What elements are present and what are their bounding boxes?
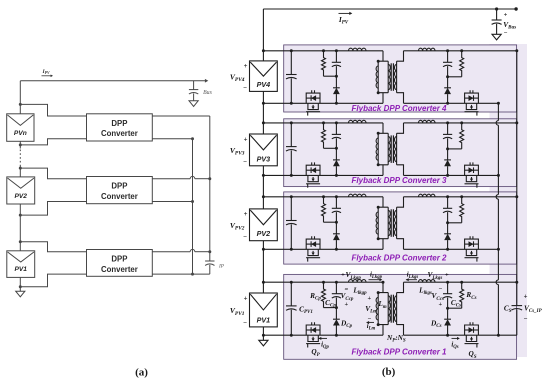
wire: DPP n upper output to IP+ rail (a) <box>152 115 210 117</box>
wire: converter 2 secondary top rail (b) <box>404 196 419 198</box>
node: converter 3 secondary return on IP- rail (b) <box>497 174 500 177</box>
svg-text:IPV: IPV <box>338 15 349 26</box>
PV panel PV4 (b) <box>250 61 278 92</box>
svg-text:−: − <box>243 320 247 327</box>
resistor R_Cp (converter 1) (b) <box>322 282 326 307</box>
svg-text:PV2: PV2 <box>257 229 271 238</box>
diode D_Cp (converter 3) (b) <box>335 148 337 160</box>
svg-text:DPP: DPP <box>111 255 127 264</box>
wire: dotted string continuation (a) <box>19 150 21 167</box>
svg-text:PV4: PV4 <box>257 80 271 89</box>
PV panel PV2 (b) <box>250 209 278 241</box>
wire: secondary stubs (converter 1) (b) <box>397 282 404 292</box>
wire: PV1 top to DPP converter 1 input (a) <box>20 242 86 252</box>
svg-text:VPV1: VPV1 <box>230 306 245 317</box>
node: DPP 2 lower on lower bus (a) <box>191 200 194 203</box>
wire: left string rail (a) upper <box>19 81 21 114</box>
svg-text:+: + <box>368 295 372 302</box>
svg-text:IP: IP <box>218 263 225 269</box>
node: converter 4 + tap on string rail (b) <box>262 49 265 52</box>
MOSFET Q_P (converter 3) (b) <box>306 165 320 175</box>
capacitor C_Cs (converter 2) (b) <box>447 197 449 209</box>
svg-text:Flyback DPP Converter 3: Flyback DPP Converter 3 <box>352 176 448 185</box>
capacitor C_Cs (converter 1) (b) <box>447 282 449 294</box>
wire: transformer primary feed (converter 2) (b) <box>382 197 384 207</box>
svg-text:−: − <box>344 286 348 293</box>
node: PV1 top (a) <box>19 240 22 243</box>
node: PVn top (a) <box>19 103 22 106</box>
svg-text:(a): (a) <box>135 366 148 378</box>
svg-text:DPP: DPP <box>111 182 127 191</box>
inductor L_lkgp (converter 2) (b) <box>349 196 367 198</box>
PV panel PV1 (b) <box>250 293 278 327</box>
wire: converter 4 secondary bottom rail (b) <box>404 102 499 104</box>
wire: transformer primary feed (converter 4) (b) <box>382 51 384 61</box>
svg-text:−: − <box>504 30 508 37</box>
wire: clamp RC join bar secondary (converter 1) (b) <box>448 307 462 309</box>
resistor R_Cs (converter 2) (b) <box>460 197 464 223</box>
wire: converter 1 secondary bottom rail (b) <box>404 334 499 336</box>
svg-text:+: + <box>244 136 248 143</box>
label i_Qs with arrow (b) <box>452 337 458 339</box>
wire: lower bus vertical (a) <box>192 139 194 274</box>
svg-text:Converter: Converter <box>101 265 138 274</box>
wire: converter 3 primary bottom rail (b) <box>263 174 383 176</box>
svg-text:VBus: VBus <box>503 20 516 31</box>
svg-text:+: + <box>244 211 248 218</box>
label i_Lm with arrow (b) <box>367 321 370 324</box>
wire: converter 1 primary top rail (b) <box>263 281 348 283</box>
inductor L_lkgp (converter 3) (b) <box>349 122 367 124</box>
capacitor C_Bus / V_Bus (b) <box>496 9 498 20</box>
resistor R_Cs (converter 4) (b) <box>460 51 464 77</box>
svg-text:−: − <box>368 315 372 322</box>
inductor L_m magnetizing (converter 2) (b) <box>377 207 379 239</box>
wire: clamp RC join bar primary (converter 2) (b) <box>324 221 337 223</box>
transformer core (converter 3) (b) <box>390 135 392 163</box>
wire: converter 2 primary bottom rail (b) <box>263 248 383 250</box>
node: converter 1 secondary return on IP- rail (b) <box>497 334 500 337</box>
capacitor C_Cp (converter 1) (b) <box>335 282 337 294</box>
svg-text:Converter: Converter <box>101 129 138 138</box>
svg-text:−: − <box>243 159 247 166</box>
svg-text:+: + <box>438 301 442 308</box>
diode D_Cs (converter 3) (b) <box>447 149 449 160</box>
node: converter 4 secondary return on IP- rail (b) <box>497 102 500 105</box>
node: converter 2 - tap on string rail (b) <box>262 248 265 251</box>
lavender strip: shared IP port region (b) <box>490 44 528 357</box>
diode D_Cp (converter 4) (b) <box>335 76 337 88</box>
wire: secondary stubs (converter 4) (b) <box>397 51 404 61</box>
node: converter 3 + tap on string rail (b) <box>262 121 265 124</box>
wire: PV2 top to DPP converter 2 input (a) <box>20 168 86 179</box>
svg-text:Converter: Converter <box>101 192 138 201</box>
wire: clamp RC join bar secondary (converter 4) (b) <box>448 76 462 78</box>
MOSFET Q_P (converter 4) (b) <box>306 93 320 103</box>
ground below C_Bus (a) <box>189 101 198 107</box>
wire: DPP 1 upper output to IP+ rail with hop (a) <box>152 251 190 253</box>
resistor R_Cp (converter 3) (b) <box>322 123 326 148</box>
svg-text:Bus: Bus <box>203 90 212 96</box>
wire: clamp RC join bar primary (converter 3) (b) <box>324 147 337 149</box>
PV panel PV3 (b) <box>250 134 278 166</box>
wire: secondary stubs (converter 2) (b) <box>397 197 404 207</box>
resistor R_Cp (converter 2) (b) <box>322 197 326 222</box>
capacitor C_Cs (converter 3) (b) <box>447 123 449 134</box>
inductor L_lkgp (converter 1) (b) <box>349 281 367 283</box>
svg-text:+: + <box>504 11 508 18</box>
svg-text:+: + <box>244 63 248 70</box>
wire: secondary stubs (converter 3) (b) <box>397 123 404 133</box>
inductor L_lkgs (converter 2) (b) <box>419 196 436 198</box>
svg-text:−: − <box>438 286 442 293</box>
wire: rail below PV1 (a) <box>19 277 21 291</box>
wire: converter 2 secondary bottom rail (b) <box>404 248 499 250</box>
node: converter 2 + tap on string rail (b) <box>262 195 265 198</box>
wire: converter 4 secondary top rail (b) <box>404 50 419 52</box>
svg-text:+: + <box>445 271 449 278</box>
MOSFET Q_S (converter 1) (b) <box>465 325 479 335</box>
diode D_Cp (converter 2) (b) <box>335 222 337 234</box>
MOSFET Q_P (converter 2) (b) <box>306 239 320 249</box>
svg-text:−: − <box>243 234 247 241</box>
capacitor C_Bus (a) <box>193 81 195 90</box>
node: lower bus bottom (a) <box>191 273 194 276</box>
MOSFET Q_P (converter 1) (b) <box>306 325 320 335</box>
capacitor C_IP (a) <box>209 260 211 262</box>
inductor L_m magnetizing (converter 1) (b) <box>377 293 379 325</box>
wire: DPP 2 lower output to lower bus (a) <box>152 201 192 203</box>
resistor R_Cs (converter 1) (b) <box>460 282 464 308</box>
capacitor C_Cp (converter 2) (b) <box>335 197 337 209</box>
block background: Flyback DPP Converter 2 box (b) <box>284 192 517 264</box>
capacitor C_Cs (converter 4) (b) <box>447 51 449 63</box>
MOSFET Q_S (converter 2) (b) <box>465 239 479 249</box>
wire: converter 3 primary top rail (b) <box>263 122 348 124</box>
block background: Flyback DPP Converter 4 box (b) <box>284 45 517 112</box>
capacitor C_PV3 (b) <box>290 123 292 147</box>
wire: rail above PV2 (a) <box>19 166 21 177</box>
capacitor C_PV4 (b) <box>290 51 292 75</box>
PV panel PV1 (a) <box>7 251 35 278</box>
transformer primary winding (converter 2) (b) <box>387 207 389 239</box>
transformer core (converter 4) (b) <box>390 63 392 91</box>
svg-text:Flyback DPP Converter 2: Flyback DPP Converter 2 <box>352 253 448 262</box>
wire: PV1 bottom to DPP converter 1 input (a) <box>20 274 86 287</box>
wire: converter 1 primary bottom rail (b) <box>263 334 383 336</box>
wire: DPP n lower output to lower bus (a) <box>152 138 192 140</box>
transformer core (converter 1) (b) <box>390 295 392 323</box>
block: DPP Converter 1 (a) <box>87 250 153 277</box>
wire: clamp RC join bar primary (converter 1) (b) <box>324 307 337 309</box>
capacitor C_Cp (converter 3) (b) <box>335 123 337 134</box>
capacitor C_S (b) <box>516 304 518 306</box>
PV panel PV2 (a) <box>7 177 35 204</box>
svg-text:VCs_IP: VCs_IP <box>524 303 543 314</box>
wire: top bus line (b) <box>263 8 516 10</box>
wire: converter 4 primary bottom rail (b) <box>263 102 383 104</box>
wire: rail below PVn (a) <box>19 141 21 148</box>
node: PV1 bottom (a) <box>19 285 22 288</box>
wire: rail PV2 to PV1 (a) <box>19 204 21 251</box>
block background: Flyback DPP Converter 3 box (b) <box>284 119 517 187</box>
PV panel PVn (a) <box>7 114 34 142</box>
wire: clamp RC join bar secondary (converter 2) (b) <box>448 222 462 224</box>
diode D_Cs (converter 4) (b) <box>447 77 449 88</box>
label i_Qp with arrow (b) <box>319 337 322 340</box>
block background: Flyback DPP Converter 1 box (b) <box>284 274 517 359</box>
svg-text:Flyback DPP Converter 1: Flyback DPP Converter 1 <box>352 347 447 356</box>
capacitor C_PV2 (b) <box>290 197 292 221</box>
wire: PVn bottom to DPP converter n input (a) <box>20 139 86 145</box>
svg-text:+: + <box>244 295 248 302</box>
wire: converter 3 secondary bottom rail (b) <box>404 174 499 176</box>
ground below V_Bus cap (b) <box>492 34 501 40</box>
svg-text:+: + <box>524 294 528 301</box>
node: PV2 bottom (a) <box>19 214 22 217</box>
node: converter 1 + tap on string rail (b) <box>262 281 265 284</box>
svg-text:IPV: IPV <box>41 69 50 75</box>
transformer primary winding (converter 1) (b) <box>387 293 389 325</box>
node: converter 4 secondary top on IP+ rail (b) <box>515 49 518 52</box>
wire: IP+ rail B (b) <box>516 51 518 304</box>
transformer secondary winding (converter 1) (b) <box>396 293 398 325</box>
node: V_Bus tap (b) <box>495 7 498 10</box>
diode D_Cp (converter 1) (b) <box>335 308 337 320</box>
wire: converter 3 secondary top rail (b) <box>404 122 419 124</box>
inductor L_m magnetizing (converter 4) (b) <box>377 61 379 92</box>
node: converter 2 secondary top on IP+ rail (b) <box>515 195 518 198</box>
svg-text:−: − <box>243 85 247 92</box>
transformer secondary winding (converter 2) (b) <box>396 207 398 239</box>
wire: DPP 1 lower output / IP- return (a) <box>152 273 210 275</box>
MOSFET Q_S (converter 3) (b) <box>465 165 479 175</box>
svg-text:PV1: PV1 <box>15 266 28 273</box>
svg-text:+: + <box>344 301 348 308</box>
transformer secondary winding (converter 3) (b) <box>396 133 398 165</box>
svg-text:PV2: PV2 <box>15 193 28 200</box>
wire: clamp RC join bar primary (converter 4) (b) <box>324 75 337 77</box>
svg-text:VPV2: VPV2 <box>230 221 245 232</box>
node: converter 3 secondary top on IP+ rail (b) <box>515 121 518 124</box>
transformer primary winding (converter 3) (b) <box>387 133 389 165</box>
node: converter 4 - tap on string rail (b) <box>262 102 265 105</box>
node: DPP 1 upper on IP+ rail (a) <box>208 250 211 253</box>
node: PV2 top (a) <box>19 167 22 170</box>
svg-text:DPP: DPP <box>111 119 127 128</box>
ground: string bottom (b) <box>259 340 268 346</box>
wire: PVn top to DPP converter n input (a) <box>20 104 86 116</box>
inductor L_m magnetizing (converter 3) (b) <box>377 133 379 165</box>
wire: IP+ rail (a) <box>209 116 211 260</box>
wire: clamp RC join bar secondary (converter 3) (b) <box>448 148 462 150</box>
node: PVn bottom (a) <box>19 143 22 146</box>
MOSFET Q_S (converter 4) (b) <box>465 93 479 103</box>
label I_PV with arrow (b) <box>339 12 350 14</box>
block: DPP Converter n (a) <box>87 114 153 141</box>
node: DPP 2 upper on IP+ rail (a) <box>208 177 211 180</box>
wire: IP port bottom return (b) <box>498 334 516 336</box>
inductor L_lkgs (converter 4) (b) <box>419 50 436 52</box>
transformer secondary winding (converter 4) (b) <box>396 61 398 92</box>
svg-text:Flyback DPP Converter 4: Flyback DPP Converter 4 <box>352 104 448 113</box>
wire: PV2 bottom to DPP converter 2 input (a) <box>20 202 86 216</box>
wire: transformer primary feed (converter 3) (b) <box>382 123 384 133</box>
node: converter 1 - tap on string rail (b) <box>262 334 265 337</box>
svg-text:PV3: PV3 <box>257 154 271 163</box>
wire: IP- rail A with hops (b) <box>497 103 499 120</box>
node: converter 2 secondary return on IP- rail (b) <box>497 248 500 251</box>
svg-text:PV1: PV1 <box>257 315 271 324</box>
wire: left string rail (b) <box>262 9 264 61</box>
wire: DPP 2 upper output to IP+ rail with hop (a) <box>152 178 190 180</box>
node: converter 1 secondary top on IP+ rail (b) <box>515 281 518 284</box>
resistor R_Cs (converter 3) (b) <box>460 123 464 149</box>
diode D_Cs (converter 2) (b) <box>447 223 449 234</box>
inductor L_lkgp (converter 4) (b) <box>349 50 367 52</box>
wire: transformer primary feed (converter 1) (b) <box>382 282 384 292</box>
inductor L_lkgs (converter 3) (b) <box>419 122 436 124</box>
resistor R_Cp (converter 4) (b) <box>322 51 326 76</box>
svg-text:−: − <box>524 316 528 323</box>
node: converter 3 - tap on string rail (b) <box>262 174 265 177</box>
ground below PV1 (a) <box>16 291 25 297</box>
block: DPP Converter 2 (a) <box>87 177 153 204</box>
capacitor C_Cp (converter 4) (b) <box>335 51 337 63</box>
node: lower bus top corner (a) <box>191 137 194 140</box>
svg-text:VPV4: VPV4 <box>230 72 245 83</box>
transformer primary winding (converter 4) (b) <box>387 61 389 92</box>
wire: converter 2 primary top rail (b) <box>263 196 348 198</box>
svg-text:(b): (b) <box>382 366 396 378</box>
wire: top bus line (a) <box>20 80 205 82</box>
svg-text:PVn: PVn <box>14 130 27 137</box>
capacitor C_PV1 (b) <box>290 282 292 306</box>
transformer core (converter 2) (b) <box>390 209 392 237</box>
svg-text:VPV3: VPV3 <box>230 146 245 157</box>
wire: converter 1 secondary top rail (b) <box>404 281 419 283</box>
inductor L_lkgs (converter 1) (b) <box>419 281 436 283</box>
diode D_Cs (converter 1) (b) <box>447 308 449 319</box>
wire: converter 4 primary top rail (b) <box>263 50 348 52</box>
